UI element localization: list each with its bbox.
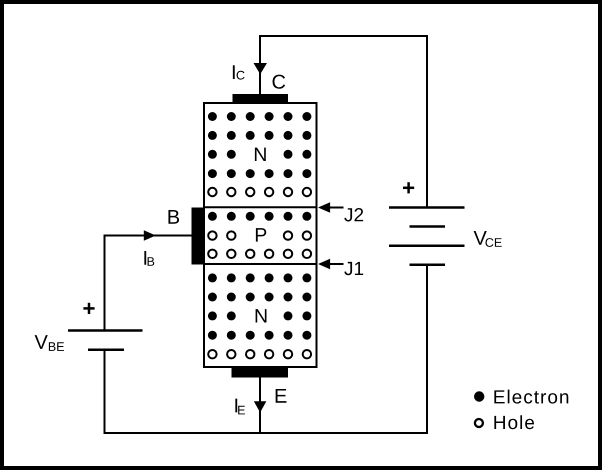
- emitter contact: [232, 367, 289, 378]
- legend hole marker: [475, 419, 483, 427]
- electrons in collector N region: [208, 112, 312, 178]
- electrons in base P region: [208, 212, 312, 221]
- legend Hole label: [494, 415, 534, 429]
- label N emitter region: [256, 309, 267, 322]
- holes in base P region: [208, 231, 311, 258]
- electrons in emitter N region: [208, 273, 312, 339]
- transistor body box: [204, 103, 317, 367]
- label N collector region: [255, 148, 266, 161]
- label VBE: [35, 335, 64, 351]
- label C terminal: [273, 75, 286, 89]
- battery VBE: [68, 331, 143, 350]
- junction J2 pointer arrow: [318, 202, 344, 213]
- wire base horizontal: [105, 235, 192, 237]
- arrow IB current: [144, 230, 156, 241]
- label J2: [344, 208, 363, 221]
- wire base to VBE battery: [104, 235, 106, 331]
- junction J1 pointer arrow: [318, 259, 344, 270]
- wire emitter vertical: [259, 377, 261, 433]
- label IE: [235, 399, 245, 415]
- junction J2 line: [204, 206, 317, 208]
- holes in emitter N region: [208, 350, 311, 358]
- label E terminal: [276, 389, 287, 403]
- arrow IC current: [254, 63, 268, 74]
- label IC: [233, 65, 245, 79]
- holes in collector N region: [208, 188, 311, 196]
- wire right vertical to VCE: [426, 35, 428, 207]
- wire VCE to bottom: [426, 265, 428, 434]
- battery VCE: [389, 208, 465, 265]
- label P base region: [256, 228, 266, 241]
- label VCE: [474, 231, 502, 247]
- base contact: [192, 208, 205, 265]
- label IB: [144, 251, 154, 266]
- wire bottom horizontal: [105, 432, 429, 434]
- legend electron marker: [474, 391, 484, 401]
- label J1: [344, 262, 363, 275]
- plus sign VBE: [83, 303, 94, 314]
- arrow IE current: [254, 401, 267, 412]
- legend Electron label: [494, 390, 568, 404]
- label B terminal: [168, 210, 179, 224]
- collector contact: [233, 94, 289, 104]
- wire top horizontal: [259, 35, 428, 37]
- wire VBE to bottom: [104, 350, 106, 434]
- plus sign VCE: [403, 182, 414, 193]
- wire collector vertical: [259, 36, 261, 94]
- junction J1 line: [204, 263, 317, 265]
